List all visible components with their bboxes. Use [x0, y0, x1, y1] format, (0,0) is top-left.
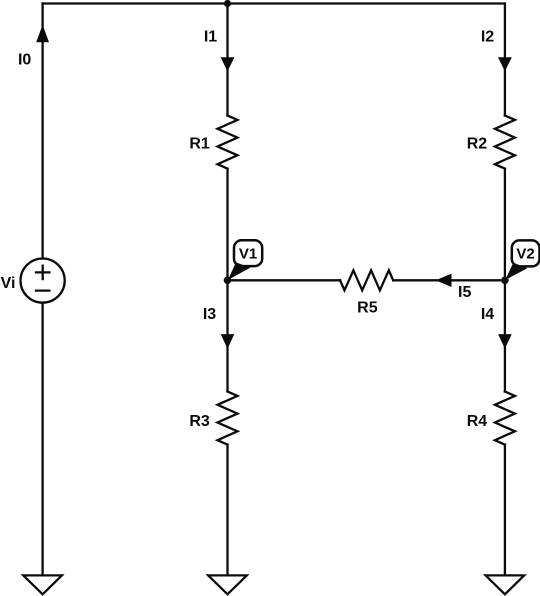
svg-text:I3: I3 — [203, 306, 216, 323]
label V2 callout pointer — [505, 263, 527, 280]
voltage source plus sign — [36, 266, 49, 279]
resistor R1 — [218, 116, 238, 169]
junction dot top node — [224, 0, 231, 7]
ground left — [23, 575, 62, 594]
node V2 dot — [501, 277, 509, 285]
resistor R4 — [495, 392, 515, 445]
svg-text:I2: I2 — [481, 28, 494, 45]
label V1 callout box — [234, 240, 262, 266]
wire right vertical upper — [504, 4, 506, 116]
svg-text:R5: R5 — [357, 299, 378, 316]
wire middle vertical bottom — [226, 445, 228, 576]
resistor R5 — [340, 270, 393, 290]
label V2 callout box — [512, 240, 540, 266]
ground middle — [208, 575, 247, 594]
svg-text:V2: V2 — [516, 246, 534, 263]
svg-text:R4: R4 — [467, 413, 488, 430]
wire right vertical bottom — [504, 445, 506, 576]
svg-text:R1: R1 — [189, 136, 210, 153]
current arrow I0 — [36, 25, 49, 42]
current arrow I1 — [221, 57, 235, 71]
svg-text:V1: V1 — [239, 245, 257, 262]
resistor R2 — [495, 116, 515, 169]
wire top bus left segment — [43, 2, 228, 4]
wire middle vertical mid — [226, 169, 228, 281]
wire left vertical lower — [41, 303, 43, 576]
svg-text:I0: I0 — [18, 52, 31, 69]
wire top bus right segment — [228, 2, 505, 4]
ground right — [486, 575, 525, 594]
wire horizontal left of R5 — [228, 279, 341, 281]
wire middle vertical upper — [226, 4, 228, 116]
resistor R3 — [218, 392, 238, 445]
svg-text:Vi: Vi — [1, 275, 16, 292]
label V1 callout pointer — [228, 262, 251, 280]
voltage source minus sign — [36, 289, 49, 291]
current arrow I2 — [498, 57, 512, 71]
node V1 dot — [224, 277, 232, 285]
current arrow I5 — [436, 274, 452, 287]
wire right vertical mid — [504, 169, 506, 281]
current arrow I3 — [221, 334, 235, 349]
svg-text:I4: I4 — [481, 306, 494, 323]
svg-text:I1: I1 — [204, 28, 217, 45]
wire middle vertical lower — [226, 280, 228, 391]
wire horizontal right of R5 — [393, 279, 505, 281]
voltage source Vi — [20, 259, 64, 303]
current arrow I4 — [498, 334, 512, 349]
wire right vertical lower — [504, 280, 506, 391]
svg-text:R3: R3 — [189, 413, 210, 430]
svg-text:R2: R2 — [467, 136, 488, 153]
svg-text:I5: I5 — [458, 284, 471, 301]
wire left vertical upper — [41, 4, 43, 259]
